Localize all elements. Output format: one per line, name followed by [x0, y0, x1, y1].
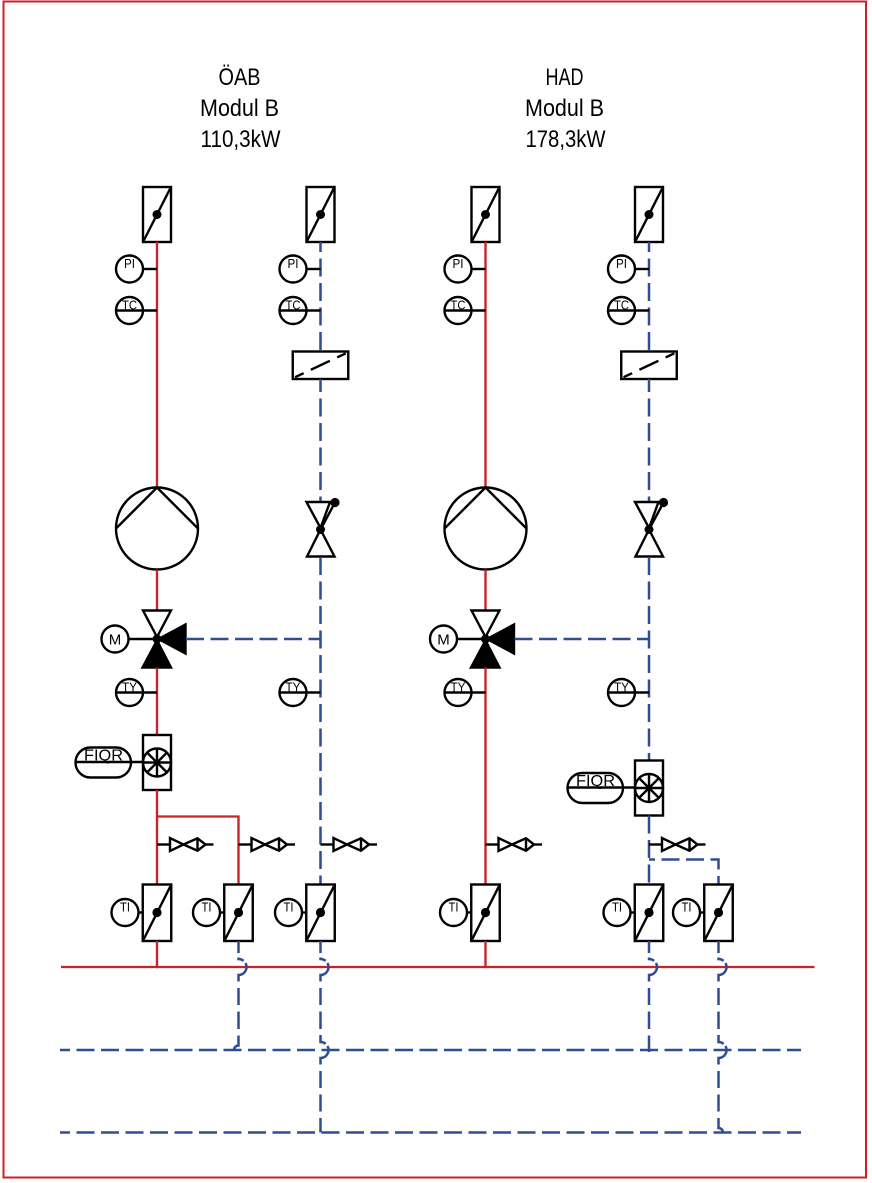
supply pipe HAD to header — [484, 941, 486, 967]
shutoff valve AV3 (HAD supply) — [472, 187, 500, 242]
svg-text:HAD: HAD — [546, 64, 584, 91]
svg-text:FIQR: FIQR — [576, 773, 615, 790]
shutoff valve AV2 (OAB return) — [307, 187, 335, 242]
svg-text:PI: PI — [616, 256, 627, 271]
thermowell pocket T3 (OAB return) — [306, 885, 335, 942]
temperature transmitter TY (OAB return) — [280, 679, 321, 706]
svg-text:178,3kW: 178,3kW — [526, 126, 606, 153]
thermowell pocket T2 (OAB branch) — [224, 885, 253, 942]
svg-text:M: M — [109, 631, 122, 648]
temperature transmitter TY (HAD return) — [608, 679, 649, 706]
return pipe HAD below flow meter — [648, 816, 651, 885]
svg-text:TI: TI — [120, 900, 130, 915]
thermowell pocket T4 (HAD supply) — [471, 885, 500, 942]
primary supply header pipe — [61, 966, 815, 968]
motor actuator M (SV2) — [430, 626, 482, 653]
label: OAB module title — [200, 64, 281, 153]
thermowell pocket T5 (HAD return) — [635, 885, 664, 942]
svg-text:TY: TY — [451, 680, 466, 695]
svg-text:PI: PI — [288, 256, 299, 271]
temperature indicator TI (OAB branch) — [193, 899, 224, 926]
svg-text:110,3kW: 110,3kW — [201, 126, 281, 153]
svg-text:TI: TI — [682, 900, 692, 915]
flow indicator FIQR label (HAD) — [568, 773, 636, 803]
supply pipe HAD upper segment — [484, 242, 486, 488]
drain valve AT5 (HAD return) — [649, 838, 706, 851]
pressure indicator PI (OAB return) — [280, 256, 321, 283]
svg-text:TI: TI — [449, 900, 459, 915]
temperature controller TC (OAB return) — [280, 297, 321, 324]
balancing unit BV2 (HAD return) — [621, 352, 677, 380]
supply pipe OAB to header — [156, 941, 158, 967]
pressure indicator PI (OAB supply) — [116, 256, 157, 283]
svg-text:TC: TC — [286, 298, 301, 313]
return drop pipe from T6 — [719, 941, 727, 1133]
svg-text:TY: TY — [614, 680, 629, 695]
primary return header pipe 1 — [60, 1049, 801, 1052]
svg-text:TC: TC — [451, 298, 466, 313]
svg-text:FIQR: FIQR — [84, 748, 123, 765]
svg-text:TI: TI — [202, 900, 212, 915]
svg-text:TC: TC — [614, 298, 629, 313]
drain valve AT3 (OAB return) — [321, 838, 378, 851]
return branch pipe HAD — [649, 860, 719, 885]
temperature indicator TI (OAB supply) — [112, 899, 143, 926]
return pipe HAD middle segment — [648, 379, 651, 502]
drain valve AT4 (HAD supply) — [486, 838, 543, 851]
svg-text:ÖAB: ÖAB — [219, 64, 261, 91]
svg-text:Modul B: Modul B — [200, 95, 279, 122]
circulation pump P1 (OAB) — [116, 488, 198, 570]
svg-text:TY: TY — [286, 680, 301, 695]
mixing connection pipe OAB — [186, 638, 321, 641]
balancing unit BV1 (OAB return) — [293, 352, 349, 380]
svg-text:TI: TI — [612, 900, 622, 915]
check valve CV2 (HAD return) — [635, 498, 668, 557]
motor actuator M (SV1) — [102, 626, 154, 653]
svg-text:TC: TC — [122, 298, 137, 313]
svg-text:M: M — [437, 631, 450, 648]
temperature controller TC (HAD return) — [608, 297, 649, 324]
temperature controller TC (HAD supply) — [445, 297, 486, 324]
supply branch pipe OAB — [157, 817, 239, 885]
supply pipe OAB between pump and valve — [156, 570, 158, 611]
return pipe OAB middle segment — [319, 379, 322, 502]
return drop pipe from T2 — [234, 941, 247, 1050]
circulation pump P2 (HAD) — [445, 488, 527, 570]
pressure indicator PI (HAD return) — [608, 256, 649, 283]
supply pipe HAD lower segment — [484, 668, 486, 885]
supply pipe OAB below valve — [156, 668, 158, 736]
flow meter FIQR (OAB) — [143, 735, 171, 790]
3-way mixing valve SV1 (OAB) — [143, 611, 186, 668]
temperature transmitter TY (HAD supply) — [445, 679, 486, 706]
mixing connection pipe HAD — [515, 638, 650, 641]
return pipe HAD lower segment — [648, 557, 651, 761]
shutoff valve AV4 (HAD return) — [635, 187, 663, 242]
svg-text:PI: PI — [124, 256, 135, 271]
label: HAD module title — [525, 64, 606, 153]
return pipe HAD upper segment — [648, 242, 651, 352]
return pipe OAB lower segment — [319, 557, 322, 885]
temperature indicator TI (HAD supply) — [440, 899, 471, 926]
supply pipe OAB lower segment — [156, 790, 158, 885]
supply pipe OAB upper segment — [156, 242, 158, 488]
shutoff valve AV1 (OAB supply) — [143, 187, 171, 242]
temperature indicator TI (HAD branch) — [673, 899, 704, 926]
temperature transmitter TY (OAB supply) — [116, 679, 157, 706]
primary return header pipe 2 — [60, 1131, 801, 1134]
flow indicator FIQR label (OAB) — [76, 748, 144, 778]
return drop pipe from T5 — [649, 941, 657, 1052]
return pipe OAB upper segment — [319, 242, 322, 352]
svg-text:Modul B: Modul B — [525, 95, 604, 122]
return drop pipe from T3 — [321, 941, 329, 1133]
svg-text:PI: PI — [453, 256, 464, 271]
flow meter FIQR (HAD) — [635, 761, 663, 816]
temperature indicator TI (HAD return) — [604, 899, 635, 926]
check valve CV1 (OAB return) — [307, 498, 340, 557]
drain valve AT1 (OAB supply) — [157, 838, 214, 851]
thermowell pocket T1 (OAB supply) — [143, 885, 172, 942]
temperature controller TC (OAB supply) — [116, 297, 157, 324]
svg-text:TI: TI — [284, 900, 294, 915]
pressure indicator PI (HAD supply) — [445, 256, 486, 283]
thermowell pocket T6 (HAD branch) — [704, 885, 733, 942]
svg-text:TY: TY — [122, 680, 137, 695]
supply pipe HAD between pump and valve — [484, 570, 486, 611]
drain valve AT2 (OAB branch) — [239, 838, 296, 851]
3-way mixing valve SV2 (HAD) — [471, 611, 514, 668]
temperature indicator TI (OAB return) — [275, 899, 306, 926]
